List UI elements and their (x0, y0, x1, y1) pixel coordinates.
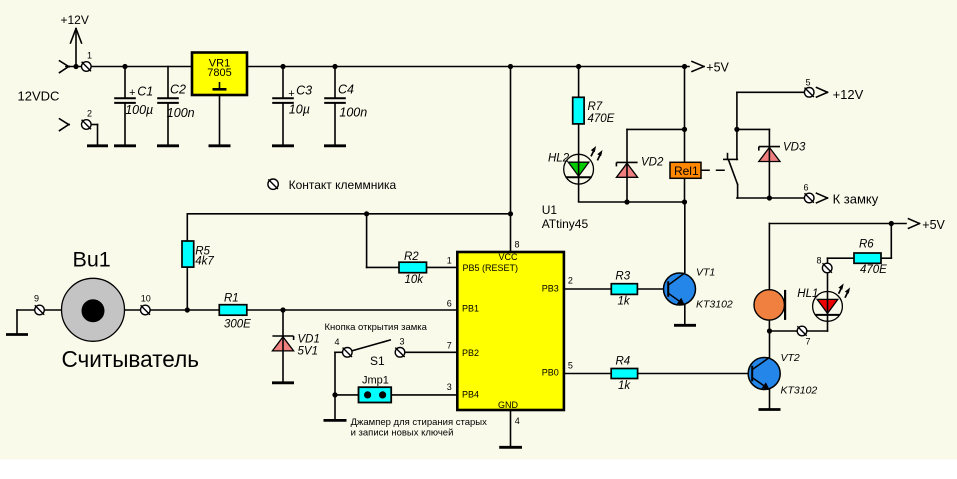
svg-text:1: 1 (87, 51, 92, 61)
svg-text:KT3102: KT3102 (696, 298, 733, 310)
svg-text:100n: 100n (167, 106, 195, 120)
svg-text:Кнопка открытия замка: Кнопка открытия замка (325, 322, 428, 333)
svg-text:Считыватель: Считыватель (62, 346, 200, 372)
svg-text:PB4: PB4 (462, 390, 479, 400)
svg-text:1: 1 (447, 255, 452, 265)
svg-text:+12V: +12V (833, 87, 864, 102)
svg-text:Rel1: Rel1 (674, 164, 699, 178)
svg-text:PB3: PB3 (542, 283, 559, 293)
svg-text:KT3102: KT3102 (781, 385, 818, 397)
svg-text:8: 8 (515, 239, 520, 249)
svg-text:HL2: HL2 (548, 153, 570, 165)
svg-text:C1: C1 (137, 85, 153, 99)
svg-text:PB2: PB2 (462, 348, 479, 358)
svg-text:+5V: +5V (706, 61, 729, 75)
svg-text:3: 3 (400, 336, 405, 346)
svg-text:10: 10 (141, 294, 151, 304)
svg-text:470E: 470E (860, 264, 887, 276)
svg-text:7: 7 (447, 341, 452, 351)
svg-text:4: 4 (515, 416, 520, 426)
svg-text:6: 6 (447, 298, 452, 308)
svg-text:7805: 7805 (207, 67, 231, 79)
svg-text:VT1: VT1 (696, 266, 715, 278)
svg-text:5: 5 (568, 361, 573, 371)
svg-text:GND: GND (498, 400, 519, 410)
svg-text:PB0: PB0 (542, 368, 559, 378)
svg-text:R1: R1 (224, 293, 239, 305)
svg-text:PB5 (RESET): PB5 (RESET) (463, 263, 519, 273)
svg-text:U1: U1 (542, 203, 558, 217)
svg-text:Jmp1: Jmp1 (362, 374, 389, 386)
svg-text:6: 6 (804, 182, 809, 192)
svg-text:9: 9 (34, 294, 39, 304)
svg-text:100n: 100n (339, 106, 367, 120)
svg-text:300E: 300E (224, 318, 251, 330)
svg-text:R7: R7 (588, 101, 603, 113)
svg-text:R2: R2 (404, 251, 419, 263)
svg-text:VD1: VD1 (298, 333, 320, 345)
svg-text:R4: R4 (616, 356, 631, 368)
svg-text:+: + (288, 88, 295, 100)
svg-text:VD2: VD2 (641, 157, 664, 169)
svg-text:1k: 1k (618, 295, 631, 307)
svg-text:ATtiny45: ATtiny45 (542, 217, 589, 231)
svg-text:+5V: +5V (922, 218, 945, 232)
svg-text:2: 2 (568, 276, 573, 286)
svg-text:и записи новых ключей: и записи новых ключей (351, 428, 454, 439)
svg-text:К замку: К замку (833, 192, 879, 207)
svg-text:10k: 10k (405, 274, 425, 286)
svg-text:Bu1: Bu1 (73, 248, 111, 272)
svg-text:5V1: 5V1 (298, 345, 318, 357)
svg-text:HL1: HL1 (797, 288, 818, 300)
svg-text:VD3: VD3 (783, 142, 806, 154)
svg-text:C3: C3 (296, 84, 312, 98)
svg-text:5: 5 (806, 78, 811, 88)
svg-text:470E: 470E (588, 113, 615, 125)
svg-text:PB1: PB1 (462, 304, 479, 314)
svg-text:R6: R6 (859, 238, 874, 250)
svg-text:7: 7 (806, 336, 811, 346)
svg-text:C4: C4 (338, 82, 354, 96)
svg-text:+12V: +12V (61, 13, 89, 27)
svg-text:R3: R3 (615, 271, 630, 283)
svg-text:1k: 1k (618, 380, 631, 392)
svg-text:12VDC: 12VDC (18, 88, 60, 103)
svg-text:10µ: 10µ (289, 102, 310, 116)
svg-text:4: 4 (335, 337, 340, 347)
svg-text:C2: C2 (170, 82, 186, 96)
svg-text:VT2: VT2 (781, 352, 800, 364)
svg-text:8: 8 (817, 256, 822, 266)
svg-text:Джампер для стирания старых: Джампер для стирания старых (351, 417, 488, 428)
svg-text:100µ: 100µ (125, 103, 153, 117)
svg-text:VCC: VCC (498, 252, 518, 262)
svg-text:2: 2 (87, 109, 92, 119)
svg-text:3: 3 (447, 382, 452, 392)
svg-text:S1: S1 (370, 354, 385, 368)
svg-text:Контакт клеммника: Контакт клеммника (289, 178, 397, 192)
svg-text:+: + (129, 87, 136, 99)
svg-text:4k7: 4k7 (195, 256, 214, 268)
